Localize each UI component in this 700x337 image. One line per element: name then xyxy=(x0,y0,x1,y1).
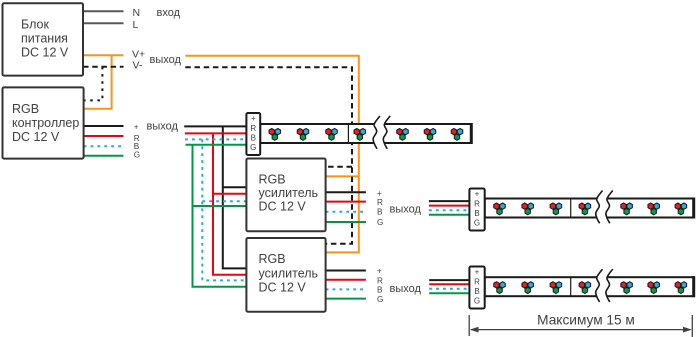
svg-text:контроллер: контроллер xyxy=(12,116,79,130)
LED strip 3 body xyxy=(485,277,694,296)
wire + black: amplifier 1 output to label xyxy=(326,191,366,193)
LED D1 xyxy=(269,129,281,141)
RGB controller box U1 xyxy=(3,87,84,158)
LED D8 xyxy=(494,203,506,215)
LED D21 xyxy=(675,282,687,294)
svg-text:RGB: RGB xyxy=(259,173,286,187)
wire R red branch into amplifier 1 xyxy=(213,193,246,195)
LED D13 xyxy=(648,203,660,215)
strip 2 break gap mask xyxy=(596,191,613,224)
svg-text:+: + xyxy=(251,114,256,123)
svg-text:RGB: RGB xyxy=(12,102,39,116)
wire G green: controller to label xyxy=(84,155,124,157)
svg-text:G: G xyxy=(474,218,480,227)
strip 1 segment divider xyxy=(347,124,349,143)
wire + black vertical trunk to amplifiers xyxy=(223,126,247,268)
wire V+ orange branch down to controller xyxy=(84,55,112,109)
svg-text:+: + xyxy=(377,267,382,276)
wire B blue dashed into strip 3 connector xyxy=(429,288,469,290)
wire B blue dashed vertical trunk to amplifiers xyxy=(202,139,246,280)
wire R red: amplifier 2 output xyxy=(326,279,366,281)
strip 3 break curve right xyxy=(606,269,613,302)
wire + black: label to strip 1 connector xyxy=(184,125,246,127)
wire V- dashed branch into amplifier 1 xyxy=(326,166,352,168)
wire + black branch into amplifier 1 xyxy=(223,186,247,188)
wire V- dashed branch down to controller xyxy=(84,67,103,101)
LED D9 xyxy=(522,203,534,215)
svg-text:V-: V- xyxy=(133,59,143,71)
svg-text:питания: питания xyxy=(21,32,68,46)
strip 1 break curve left xyxy=(373,116,380,149)
wire R red into strip 3 connector xyxy=(429,283,469,285)
LED D20 xyxy=(648,282,660,294)
strip 2 break curve left xyxy=(596,191,603,224)
LED D5 xyxy=(397,129,409,141)
dimension arrowhead left xyxy=(470,327,479,333)
wire + black into strip 3 connector xyxy=(429,279,469,281)
svg-text:+: + xyxy=(377,189,382,198)
svg-text:усилитель: усилитель xyxy=(259,186,319,200)
LED D18 xyxy=(579,282,591,294)
LED D17 xyxy=(550,282,562,294)
wire V- dashed: long run right and down to amplifiers xyxy=(185,67,352,244)
LED strip 1 body xyxy=(260,124,471,143)
svg-text:R: R xyxy=(377,198,383,207)
strip 2 break curve right xyxy=(606,191,613,224)
strip 2 connector J2 xyxy=(469,189,484,231)
wire R red: amplifier 1 output xyxy=(326,201,366,203)
svg-text:Блок: Блок xyxy=(21,18,49,32)
dimension arrow line xyxy=(471,329,691,331)
wire + black into strip 2 connector xyxy=(429,200,470,202)
wire N (mains input, gray) xyxy=(83,10,124,12)
LED D3 xyxy=(326,129,338,141)
dimension tick left xyxy=(468,315,470,336)
strip 3 segment divider xyxy=(570,277,572,296)
dimension tick right xyxy=(691,315,693,337)
wire R red: controller to label xyxy=(84,135,124,137)
svg-text:Максимум 15 м: Максимум 15 м xyxy=(537,313,635,328)
LED D12 xyxy=(621,203,633,215)
strip 3 end cap xyxy=(692,276,695,297)
wire V+ orange: long run right and down to amplifiers xyxy=(185,56,358,253)
strip 3 break curve left xyxy=(596,269,603,302)
svg-text:R: R xyxy=(377,277,383,286)
wire G green vertical trunk to amplifiers xyxy=(193,145,247,287)
svg-text:G: G xyxy=(250,143,256,152)
wire B blue dashed branch into amplifier 1 xyxy=(202,200,246,202)
svg-text:DC 12 V: DC 12 V xyxy=(259,200,307,214)
svg-text:G: G xyxy=(134,151,140,160)
power supply unit box xyxy=(3,3,84,75)
svg-text:выход: выход xyxy=(147,121,179,133)
wire B blue dashed: amplifier 2 output xyxy=(326,288,366,290)
svg-text:выход: выход xyxy=(150,54,182,66)
LED D2 xyxy=(297,129,309,141)
wire B blue dashed: label to strip 1 connector xyxy=(185,138,246,140)
wire B blue dashed: amplifier 1 output xyxy=(326,211,366,213)
LED D11 xyxy=(579,203,591,215)
RGB amplifier 2 box xyxy=(246,238,325,312)
LED D6 xyxy=(424,129,436,141)
LED D10 xyxy=(550,203,562,215)
wire B blue dashed into strip 2 connector xyxy=(429,209,470,211)
svg-text:выход: выход xyxy=(390,283,422,295)
wire R red: label to strip 1 connector xyxy=(185,132,247,134)
wire V+ orange: PSU to label xyxy=(83,54,124,56)
wire + black: controller to label xyxy=(84,125,124,127)
svg-text:G: G xyxy=(474,296,480,305)
svg-text:DC 12 V: DC 12 V xyxy=(259,281,307,295)
svg-text:B: B xyxy=(474,209,479,218)
svg-text:DC 12 V: DC 12 V xyxy=(21,46,69,60)
wire G green into strip 2 connector xyxy=(429,214,470,216)
LED D15 xyxy=(494,282,506,294)
svg-text:B: B xyxy=(377,207,383,216)
svg-text:R: R xyxy=(474,278,480,287)
svg-text:усилитель: усилитель xyxy=(259,266,319,280)
svg-text:вход: вход xyxy=(157,7,181,19)
svg-text:L: L xyxy=(133,19,139,31)
LED strip 2 body xyxy=(485,199,694,218)
wire G green branch into amplifier 1 xyxy=(193,205,247,207)
strip 1 break gap mask xyxy=(373,116,390,149)
svg-text:G: G xyxy=(377,218,383,227)
wire V+ orange branch into amplifier 1 xyxy=(326,175,359,177)
LED D16 xyxy=(522,282,534,294)
wire R red into strip 2 connector xyxy=(429,205,470,207)
svg-text:B: B xyxy=(474,287,479,296)
wire B blue dashed: controller to label xyxy=(84,145,124,147)
LED D7 xyxy=(451,129,463,141)
strip 1 break curve right xyxy=(383,116,390,149)
strip 1 end cap xyxy=(470,123,473,144)
svg-text:RGB: RGB xyxy=(259,252,286,266)
wire V- black dashed: PSU to label xyxy=(83,66,124,68)
strip 1 connector J1 xyxy=(246,113,260,155)
svg-text:N: N xyxy=(133,7,141,19)
LED D14 xyxy=(675,203,687,215)
svg-text:G: G xyxy=(377,295,383,304)
wire G green: amplifier 1 output xyxy=(326,221,366,223)
dimension arrowhead right xyxy=(683,327,692,333)
strip 2 segment divider xyxy=(570,199,572,218)
wire L (mains input, gray) xyxy=(83,22,124,24)
svg-text:выход: выход xyxy=(390,203,422,215)
wire + black: amplifier 2 output to label xyxy=(326,270,366,272)
LED D4 xyxy=(354,129,366,141)
svg-text:DC 12 V: DC 12 V xyxy=(12,130,60,144)
svg-text:B: B xyxy=(251,133,256,142)
svg-text:+: + xyxy=(475,268,480,277)
strip 3 connector J3 xyxy=(469,267,484,309)
svg-text:B: B xyxy=(377,286,383,295)
svg-text:R: R xyxy=(474,200,480,209)
strip 2 end cap xyxy=(692,198,695,219)
wire G green into strip 3 connector xyxy=(429,292,469,294)
svg-text:+: + xyxy=(475,190,480,199)
wire G green: label to strip 1 connector xyxy=(186,144,247,146)
strip 3 break gap mask xyxy=(596,269,613,302)
svg-text:R: R xyxy=(250,124,256,133)
wire R red vertical trunk to amplifiers xyxy=(213,133,246,274)
LED D19 xyxy=(621,282,633,294)
wire G green: amplifier 2 output xyxy=(326,298,366,300)
RGB amplifier 1 box xyxy=(246,159,325,232)
svg-text:+: + xyxy=(134,122,139,131)
